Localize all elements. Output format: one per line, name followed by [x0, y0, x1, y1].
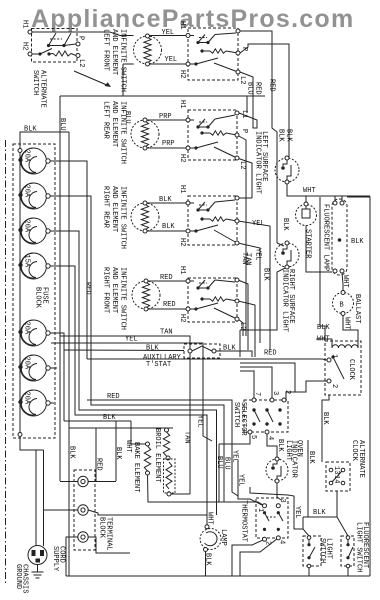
svg-text:TAN: TAN: [160, 329, 173, 337]
svg-text:H2: H2: [178, 314, 186, 322]
svg-text:WHT: WHT: [303, 187, 316, 195]
svg-text:L1: L1: [240, 110, 248, 118]
svg-text:BROIL ELEMENT: BROIL ELEMENT: [153, 428, 161, 483]
svg-text:AND ELEMENT: AND ELEMENT: [110, 101, 118, 147]
svg-text:BLK: BLK: [223, 345, 236, 353]
svg-text:CLOCK: CLOCK: [347, 359, 355, 381]
svg-text:H2: H2: [178, 238, 186, 246]
svg-text:H1: H1: [178, 185, 186, 193]
svg-text:BALLAST: BALLAST: [353, 294, 361, 323]
svg-text:3: 3: [278, 499, 286, 503]
svg-text:PRP: PRP: [159, 113, 172, 121]
svg-text:RED: RED: [254, 82, 262, 95]
svg-text:20A: 20A: [23, 322, 31, 335]
svg-text:INDICATOR LIGHT: INDICATOR LIGHT: [254, 131, 262, 194]
svg-text:YEL: YEL: [162, 29, 175, 37]
svg-text:LEFT FRONT: LEFT FRONT: [102, 29, 110, 71]
svg-text:2: 2: [330, 384, 338, 388]
svg-text:13: 13: [332, 466, 340, 474]
svg-text:BLK: BLK: [285, 129, 293, 142]
svg-text:SUPPLY: SUPPLY: [51, 546, 59, 572]
svg-text:1: 1: [330, 354, 338, 358]
svg-text:BLK: BLK: [103, 414, 116, 422]
svg-text:THERMOSTAT: THERMOSTAT: [240, 500, 248, 542]
svg-text:BLK: BLK: [276, 439, 284, 452]
svg-text:TAN: TAN: [183, 431, 191, 444]
svg-text:P: P: [77, 36, 85, 40]
svg-text:SWITCH: SWITCH: [232, 402, 240, 427]
svg-text:BLK: BLK: [146, 345, 159, 353]
svg-text:H1: H1: [178, 21, 186, 29]
svg-text:INFINITE SWITCH: INFINITE SWITCH: [119, 101, 127, 164]
svg-text:1: 1: [256, 508, 264, 512]
svg-text:H1: H1: [178, 266, 186, 274]
svg-text:YEL: YEL: [254, 248, 262, 261]
svg-text:BLU: BLU: [223, 457, 231, 470]
svg-text:RIGHT FRONT: RIGHT FRONT: [102, 267, 110, 313]
svg-text:H1: H1: [21, 20, 29, 28]
svg-text:YEL: YEL: [231, 450, 239, 463]
svg-text:BLOCK: BLOCK: [98, 517, 106, 539]
svg-text:BLK: BLK: [68, 446, 76, 459]
svg-text:RED: RED: [95, 458, 103, 471]
svg-text:BLK: BLK: [204, 553, 212, 566]
svg-text:RIGHT REAR: RIGHT REAR: [102, 186, 110, 229]
svg-text:SWITCH: SWITCH: [31, 70, 39, 95]
svg-text:YEL: YEL: [165, 56, 178, 64]
svg-text:BLK: BLK: [317, 324, 330, 332]
svg-text:L2: L2: [238, 161, 246, 169]
svg-text:AND ELEMENT: AND ELEMENT: [110, 186, 118, 232]
svg-text:BAKE ELEMENT: BAKE ELEMENT: [132, 442, 140, 492]
svg-text:WHT: WHT: [317, 336, 330, 344]
svg-text:14: 14: [332, 475, 340, 483]
svg-text:H2: H2: [178, 70, 186, 78]
svg-text:BLK: BLK: [114, 447, 122, 460]
svg-text:RED: RED: [268, 79, 276, 92]
svg-text:T'STAT: T'STAT: [146, 361, 171, 369]
svg-text:WHT: WHT: [341, 275, 349, 288]
svg-text:AppliancePartsPros.com: AppliancePartsPros.com: [31, 5, 354, 33]
svg-text:INFINITE SWITCH: INFINITE SWITCH: [119, 186, 127, 249]
svg-text:WHT: WHT: [124, 440, 132, 453]
svg-text:AND ELEMENT: AND ELEMENT: [110, 29, 118, 75]
svg-text:3: 3: [271, 391, 279, 395]
svg-text:INFINITE SWITCH: INFINITE SWITCH: [119, 267, 127, 330]
svg-text:INFINITE SWITCH: INFINITE SWITCH: [119, 29, 127, 92]
svg-text:2: 2: [283, 390, 291, 394]
svg-text:BLK: BLK: [262, 268, 270, 281]
svg-text:BLU: BLU: [215, 456, 223, 469]
svg-text:P: P: [240, 129, 248, 133]
svg-text:BLU: BLU: [246, 82, 254, 95]
svg-text:20A: 20A: [23, 220, 31, 233]
svg-text:H2: H2: [178, 154, 186, 162]
svg-text:YEL: YEL: [293, 506, 301, 519]
svg-text:BLU: BLU: [58, 118, 66, 131]
svg-text:BLK: BLK: [159, 196, 172, 204]
svg-text:BLK: BLK: [351, 238, 364, 246]
svg-text:15A: 15A: [23, 255, 31, 268]
svg-text:BLK: BLK: [307, 451, 315, 464]
svg-text:B: B: [340, 302, 344, 310]
svg-text:20A: 20A: [23, 357, 31, 370]
svg-text:BLK: BLK: [277, 129, 285, 142]
svg-text:YEL: YEL: [196, 415, 204, 428]
svg-text:20A: 20A: [23, 150, 31, 163]
svg-text:YEL: YEL: [237, 474, 245, 487]
svg-text:4: 4: [278, 540, 286, 544]
svg-text:H1: H1: [178, 100, 186, 108]
svg-text:TAN: TAN: [244, 253, 252, 266]
svg-text:SWITCH: SWITCH: [318, 538, 326, 563]
svg-text:5: 5: [249, 435, 257, 439]
svg-text:2: 2: [264, 541, 272, 545]
svg-text:GROUND: GROUND: [14, 564, 22, 589]
svg-text:BLK: BLK: [281, 218, 289, 231]
svg-text:20A: 20A: [23, 392, 31, 405]
svg-text:AND ELEMENT: AND ELEMENT: [110, 267, 118, 313]
svg-text:YEL: YEL: [125, 336, 138, 344]
svg-text:PRP: PRP: [162, 140, 175, 148]
svg-text:20A: 20A: [23, 185, 31, 198]
svg-text:RED: RED: [107, 393, 120, 401]
svg-text:L2: L2: [77, 59, 85, 67]
svg-text:BLK: BLK: [313, 509, 326, 517]
svg-text:7: 7: [253, 392, 261, 396]
svg-text:BLK: BLK: [321, 412, 329, 425]
svg-text:BLK: BLK: [162, 223, 175, 231]
svg-text:LIGHT: LIGHT: [284, 440, 292, 461]
svg-text:CLOCK: CLOCK: [350, 440, 358, 462]
svg-text:BLK: BLK: [24, 126, 37, 134]
svg-text:FLUORESCENT LAMP: FLUORESCENT LAMP: [322, 204, 330, 271]
svg-text:BLOCK: BLOCK: [34, 287, 42, 309]
svg-text:H2: H2: [21, 42, 29, 50]
svg-text:INDICATOR LIGHT: INDICATOR LIGHT: [281, 269, 289, 332]
svg-text:LIGHT SWITCH: LIGHT SWITCH: [355, 522, 363, 572]
svg-text:RED: RED: [264, 350, 277, 358]
svg-text:LAMP: LAMP: [219, 529, 227, 546]
svg-text:LEFT REAR: LEFT REAR: [102, 101, 110, 140]
svg-text:YEL: YEL: [252, 220, 265, 228]
svg-text:RED: RED: [163, 301, 176, 309]
svg-text:L2: L2: [238, 322, 246, 330]
svg-text:WHT: WHT: [343, 317, 351, 330]
svg-text:STARTER: STARTER: [304, 229, 312, 259]
svg-text:P: P: [240, 47, 248, 51]
svg-text:RED: RED: [160, 274, 173, 282]
svg-text:4: 4: [266, 436, 274, 440]
svg-text:RED: RED: [84, 282, 92, 295]
svg-text:WHT: WHT: [206, 512, 214, 525]
svg-text:L2: L2: [238, 76, 246, 84]
